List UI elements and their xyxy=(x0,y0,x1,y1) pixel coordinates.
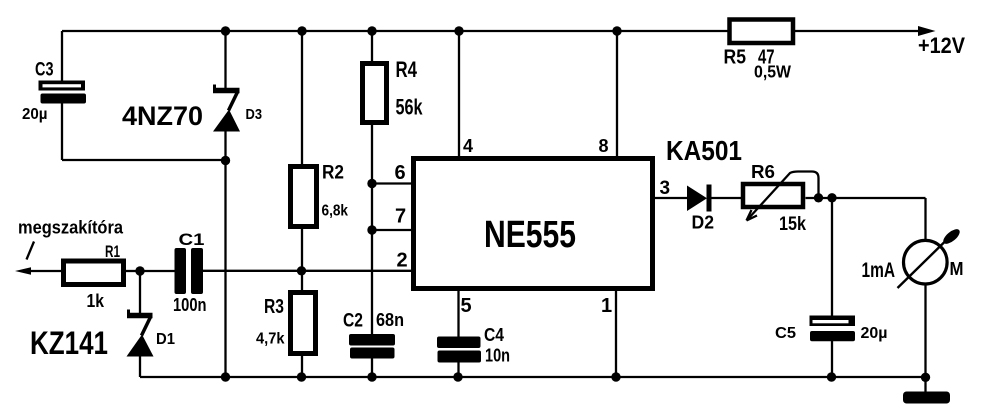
svg-text:5: 5 xyxy=(461,295,472,317)
capacitor C2 xyxy=(349,334,395,359)
label C2 xyxy=(343,310,363,332)
label D2 xyxy=(692,213,715,233)
node D3/rail xyxy=(221,372,230,381)
svg-text:1: 1 xyxy=(601,295,612,317)
svg-text:R2: R2 xyxy=(322,163,344,184)
label C1 xyxy=(179,230,205,249)
resistor R5 xyxy=(730,20,794,44)
svg-text:4NZ70: 4NZ70 xyxy=(122,101,203,131)
wire pin 2 long horizontal xyxy=(203,270,412,272)
node C5 branch junction xyxy=(827,193,836,202)
capacitor C1 xyxy=(175,248,204,294)
label D3 xyxy=(246,106,263,123)
tick mark slash xyxy=(27,242,35,260)
label M xyxy=(950,259,964,279)
wire top +12V rail xyxy=(62,30,920,32)
input arrowhead (to interrupter) xyxy=(15,267,31,274)
label 47 (R5 value) xyxy=(758,46,775,69)
resistor R2 xyxy=(291,167,317,227)
wire D3 branch bottom vertical xyxy=(224,131,226,377)
label C4 xyxy=(484,325,504,345)
svg-text:68n: 68n xyxy=(376,310,404,330)
label megszakítóra xyxy=(18,218,124,238)
capacitor C4 xyxy=(437,337,481,363)
svg-text:6: 6 xyxy=(395,162,406,184)
svg-text:4: 4 xyxy=(463,136,473,156)
wire C3 bottom vertical xyxy=(61,103,63,160)
wire C3 branch top vertical xyxy=(61,31,63,81)
label 0,5W (R5 rating) xyxy=(754,62,791,82)
label R1 xyxy=(105,242,120,261)
svg-text:megszakítóra: megszakítóra xyxy=(18,218,124,238)
resistor R1 xyxy=(64,261,124,285)
node R2/R3 junction xyxy=(297,266,306,275)
svg-text:3: 3 xyxy=(660,178,671,199)
svg-text:7: 7 xyxy=(395,206,406,228)
wire D2 to R6 xyxy=(712,197,742,199)
wire D1 branch vertical xyxy=(139,271,141,313)
node R2/rail top xyxy=(297,26,306,35)
node wiper junction xyxy=(814,193,823,202)
node meter/ground junction xyxy=(921,373,930,382)
wire down to meter xyxy=(924,198,926,240)
label KZ141 xyxy=(30,325,108,361)
wire C5 branch vertical xyxy=(831,198,833,316)
node C5/rail xyxy=(827,372,836,381)
svg-text:D3: D3 xyxy=(246,106,263,123)
label R4 xyxy=(396,57,418,82)
svg-text:8: 8 xyxy=(599,136,609,156)
label 20µ (C5 value) xyxy=(861,325,888,342)
wire R1 to node xyxy=(126,270,140,272)
wire pin 6 stub xyxy=(372,182,412,184)
label +12V xyxy=(918,33,965,58)
svg-text:KA501: KA501 xyxy=(666,135,742,166)
label 1k (R1 value) xyxy=(87,290,105,311)
wire pin 8 vertical xyxy=(616,31,618,157)
wire D3 branch top vertical xyxy=(224,31,226,88)
resistor R6 (trimmer) xyxy=(743,184,803,207)
node C4/rail xyxy=(453,372,462,381)
wire node to C1 xyxy=(140,270,175,272)
node pin7 junction xyxy=(367,225,376,234)
svg-text:D2: D2 xyxy=(692,213,715,233)
wire R3 bottom vertical xyxy=(301,353,303,377)
wire R6 output to meter branch xyxy=(806,197,926,199)
wire pin 1 vertical xyxy=(615,290,617,377)
svg-text:C4: C4 xyxy=(484,325,504,345)
wire input lead xyxy=(28,270,62,272)
node R3/rail xyxy=(297,372,306,381)
label R6 xyxy=(751,162,775,182)
wire meter bottom vertical xyxy=(924,284,926,378)
label pin 4 xyxy=(463,136,473,156)
label 1mA xyxy=(862,259,896,282)
label 100n (C1 value) xyxy=(173,294,207,315)
svg-text:D1: D1 xyxy=(156,331,175,348)
label 20µ (C3 value) xyxy=(22,106,48,123)
wire C3 loop horizontal xyxy=(62,159,226,161)
svg-text:C1: C1 xyxy=(179,230,205,249)
label 15k (R6 value) xyxy=(779,213,806,235)
svg-text:100n: 100n xyxy=(173,294,207,315)
wire R4 bottom vertical down to C2 xyxy=(371,122,373,335)
node C2/rail xyxy=(367,372,376,381)
wire R4 branch top vertical xyxy=(371,31,373,63)
svg-text:C3: C3 xyxy=(35,60,54,81)
node pin1/rail xyxy=(611,372,620,381)
node R1/C1/D1 junction xyxy=(135,266,144,275)
svg-text:R4: R4 xyxy=(396,57,418,82)
svg-text:20µ: 20µ xyxy=(22,106,48,123)
svg-text:+12V: +12V xyxy=(918,33,965,58)
wire R2 branch top vertical xyxy=(301,31,303,165)
label pin 3 xyxy=(660,178,671,199)
node R4/rail top xyxy=(367,26,376,35)
svg-text:KZ141: KZ141 xyxy=(30,325,108,361)
capacitor C3 xyxy=(39,81,87,104)
label pin 7 xyxy=(395,206,406,228)
wire pin 3 stub xyxy=(655,197,688,199)
label R3 xyxy=(264,296,284,318)
svg-text:C5: C5 xyxy=(775,325,796,342)
meter M (1mA) xyxy=(898,227,963,288)
wire D1 bottom vertical xyxy=(139,356,141,377)
label pin 8 xyxy=(599,136,609,156)
label C3 xyxy=(35,60,54,81)
diode D1 (zener KZ141) xyxy=(127,310,154,357)
label pin 1 xyxy=(601,295,612,317)
diode D2 xyxy=(687,185,709,212)
svg-text:R6: R6 xyxy=(751,162,775,182)
node D3/rail top xyxy=(221,26,230,35)
label R5 xyxy=(724,46,747,69)
wire ground stub xyxy=(924,378,926,393)
resistor R4 xyxy=(363,64,387,123)
label 6,8k (R2 value) xyxy=(322,203,349,220)
svg-text:10n: 10n xyxy=(485,346,510,366)
svg-text:1mA: 1mA xyxy=(862,259,896,282)
wire C4 bottom stub xyxy=(457,362,459,377)
node pin8/rail top xyxy=(612,26,621,35)
resistor R3 xyxy=(291,293,316,354)
svg-text:20µ: 20µ xyxy=(861,325,888,342)
wire pin 5 vertical xyxy=(457,290,459,337)
label KA501 xyxy=(666,135,742,166)
label 4NZ70 xyxy=(122,101,203,131)
svg-text:R5: R5 xyxy=(724,46,747,69)
label NE555 xyxy=(484,214,576,256)
wire C5 bottom stub xyxy=(831,341,833,377)
wire bottom ground rail xyxy=(140,376,926,378)
node pin6 junction xyxy=(367,179,376,188)
wire pin 4 vertical xyxy=(458,31,460,157)
node pin4/rail top xyxy=(454,26,463,35)
diode D3 (zener 4NZ70) xyxy=(213,85,240,132)
label pin 6 xyxy=(395,162,406,184)
wire R2 bottom vertical xyxy=(301,229,303,271)
R6 wiper arm xyxy=(747,172,819,221)
svg-text:C2: C2 xyxy=(343,310,363,332)
label pin 5 xyxy=(461,295,472,317)
op-amp U1 NE555 box xyxy=(414,159,653,289)
svg-text:1k: 1k xyxy=(87,290,105,311)
label pin 2 xyxy=(397,250,408,272)
svg-text:M: M xyxy=(950,259,964,279)
svg-text:R3: R3 xyxy=(264,296,284,318)
svg-text:0,5W: 0,5W xyxy=(754,62,791,82)
label C5 xyxy=(775,325,796,342)
svg-text:6,8k: 6,8k xyxy=(322,203,349,220)
wire R3 top vertical xyxy=(301,271,303,292)
svg-text:R1: R1 xyxy=(105,242,120,261)
svg-text:2: 2 xyxy=(397,250,408,272)
label 68n (C2 value) xyxy=(376,310,404,330)
svg-text:4,7k: 4,7k xyxy=(256,331,285,348)
+12V arrowhead xyxy=(918,26,936,36)
label 56k (R4 value) xyxy=(396,95,424,120)
wire pin 7 stub xyxy=(372,229,412,231)
svg-text:56k: 56k xyxy=(396,95,424,120)
capacitor C5 xyxy=(810,316,856,342)
label R2 xyxy=(322,163,344,184)
node C3/D3 junction xyxy=(221,156,230,165)
label D1 xyxy=(156,331,175,348)
label 10n (C4 value) xyxy=(485,346,510,366)
wire C2 bottom stub xyxy=(371,358,373,377)
svg-text:15k: 15k xyxy=(779,213,806,235)
svg-text:NE555: NE555 xyxy=(484,214,576,256)
label 4,7k (R3 value) xyxy=(256,331,285,348)
ground xyxy=(903,392,950,404)
